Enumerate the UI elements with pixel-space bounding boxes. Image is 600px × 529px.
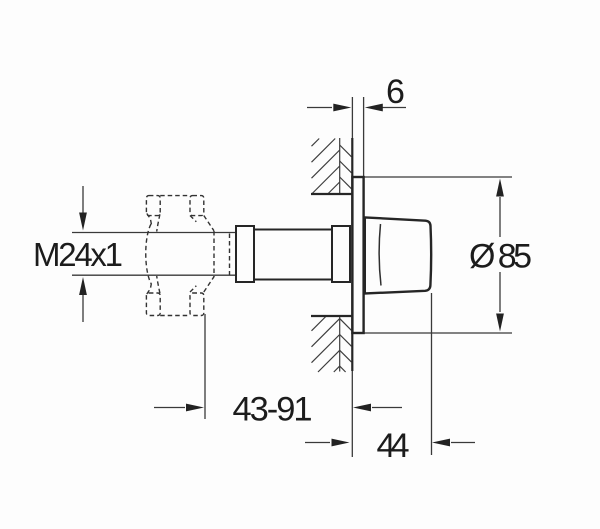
svg-text:43-91: 43-91: [233, 391, 313, 429]
svg-text:Ø 85: Ø 85: [469, 238, 532, 276]
svg-text:M24x1: M24x1: [33, 236, 123, 273]
svg-text:44: 44: [377, 427, 410, 465]
svg-text:6: 6: [386, 73, 405, 111]
